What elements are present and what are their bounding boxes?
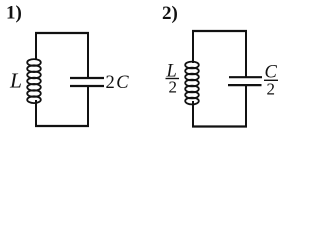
capacitor C/2 bottom plate <box>228 84 262 86</box>
wire left-bottom circuit 2 <box>192 101 194 127</box>
inductor L1 coil <box>27 59 41 103</box>
wire top circuit 1 <box>35 32 89 34</box>
wire left-top circuit 1 <box>35 32 37 60</box>
svg-text:L: L <box>9 69 22 93</box>
svg-text:2: 2 <box>169 78 178 97</box>
wire bottom circuit 1 <box>35 125 89 127</box>
wire top circuit 2 <box>192 30 247 32</box>
capacitor 2C bottom plate <box>70 85 104 87</box>
inductor L2 coil <box>185 62 199 105</box>
wire bottom circuit 2 <box>192 125 247 127</box>
capacitor C/2 top plate <box>229 76 262 78</box>
wire left-top circuit 2 <box>192 30 194 63</box>
svg-text:2: 2 <box>267 80 276 99</box>
wire left-bottom circuit 1 <box>35 100 37 127</box>
wire right-bottom circuit 2 <box>245 85 247 127</box>
capacitor 2C top plate <box>70 77 104 79</box>
label L/2 fraction <box>166 62 180 97</box>
label C/2 fraction <box>264 63 278 99</box>
wire right-bottom circuit 1 <box>87 86 89 127</box>
wire right-top circuit 1 <box>87 32 89 78</box>
svg-text:2C: 2C <box>106 73 130 93</box>
svg-text:2): 2) <box>162 3 178 24</box>
wire right-top circuit 2 <box>245 30 247 77</box>
svg-text:1): 1) <box>6 3 22 24</box>
